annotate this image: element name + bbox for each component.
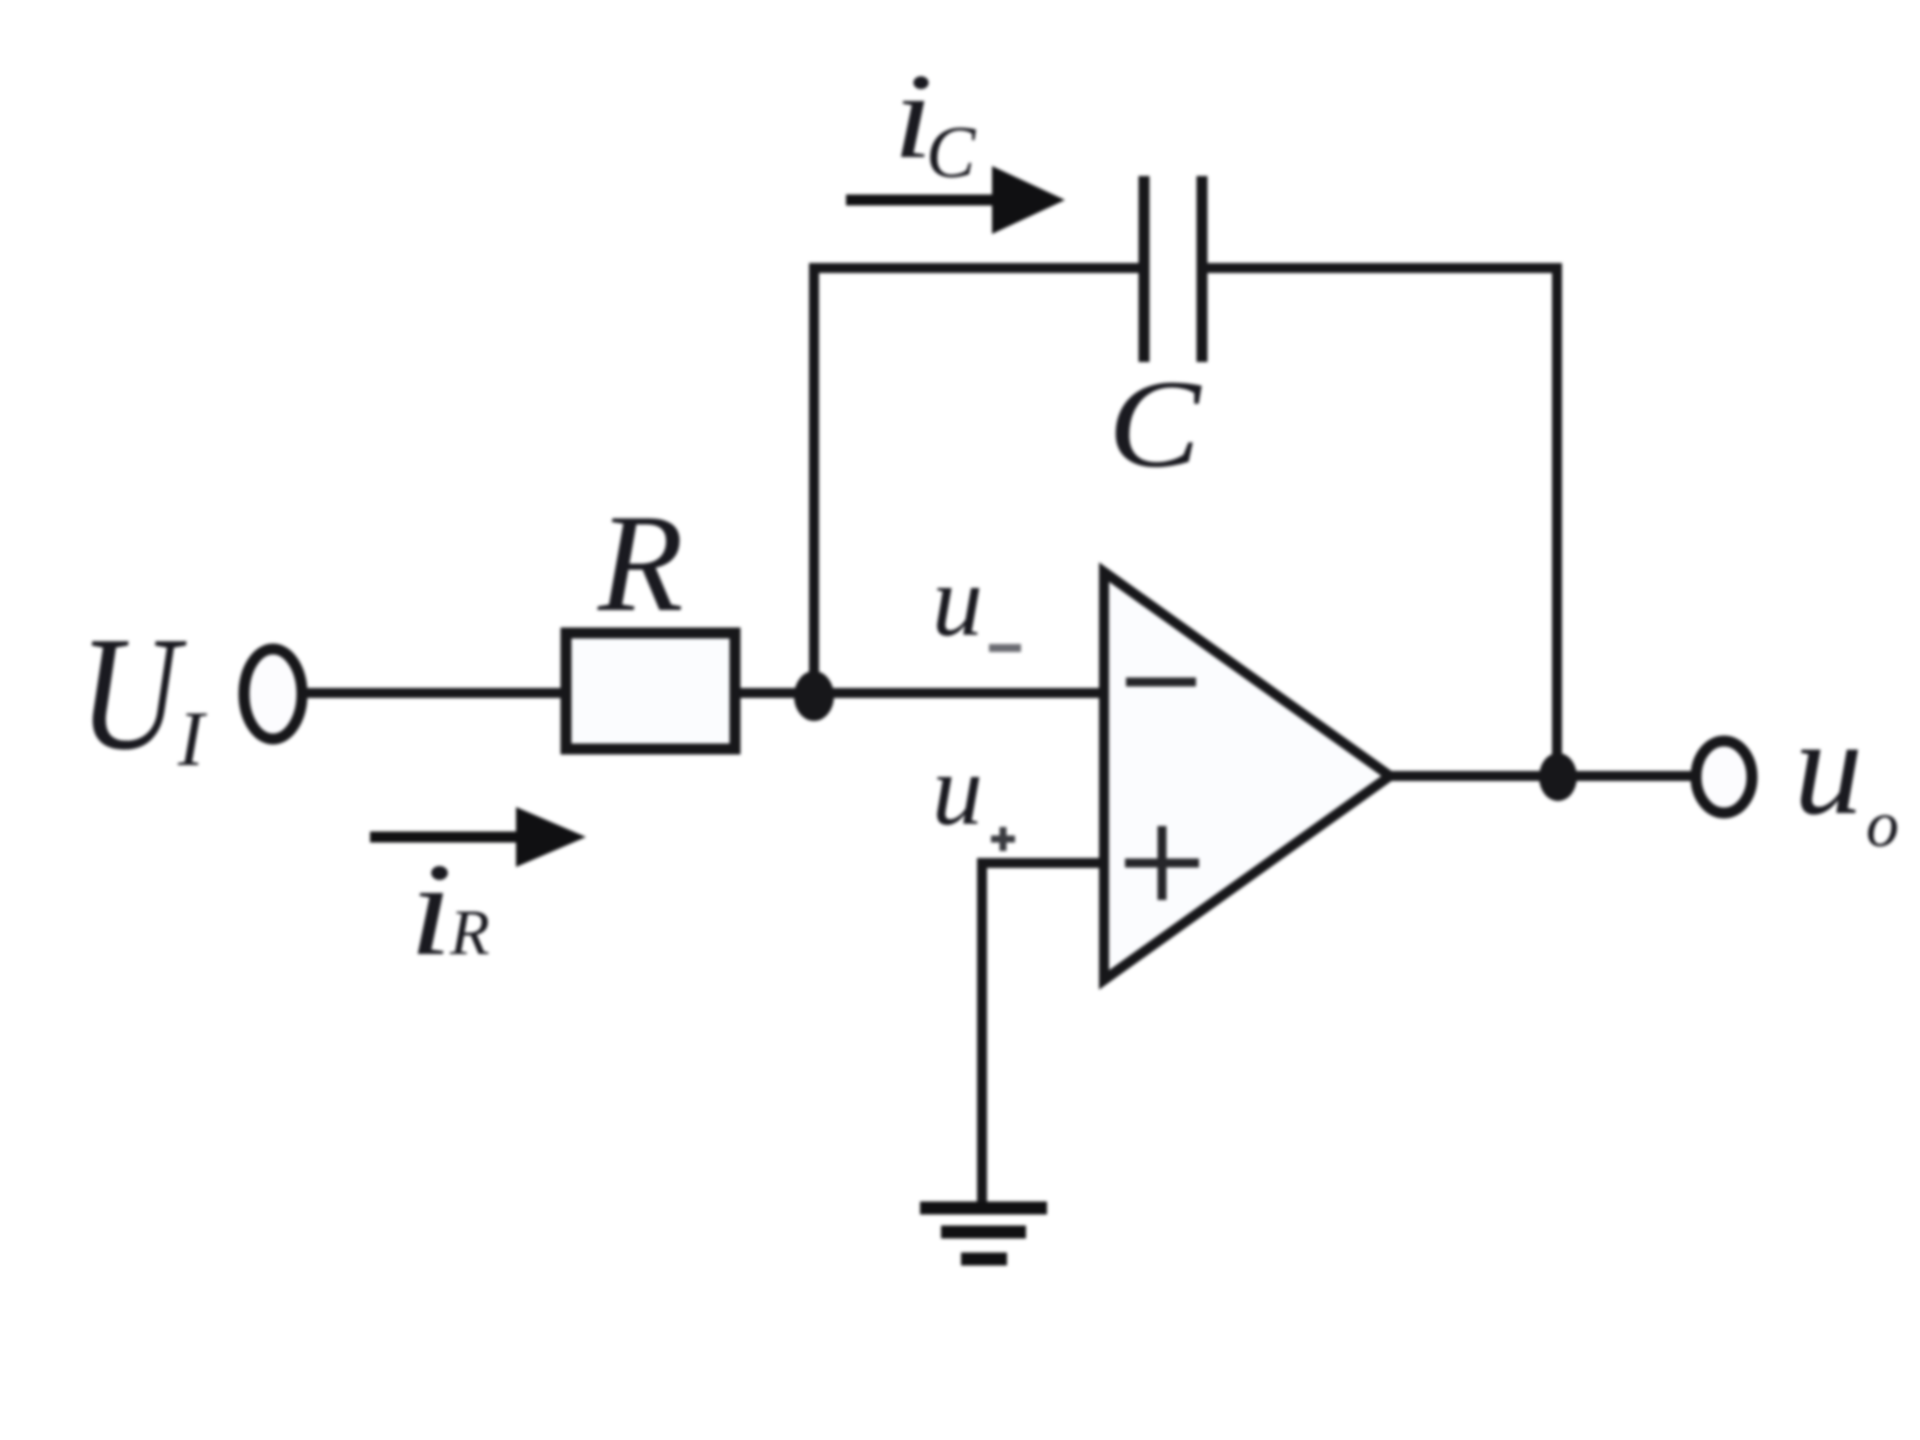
svg-text:C: C — [1108, 354, 1202, 494]
ground bar 2 — [941, 1226, 1026, 1239]
svg-text:o: o — [1866, 788, 1899, 861]
node A junction dot — [794, 671, 834, 721]
svg-text:U: U — [79, 603, 187, 784]
wire node up to feedback — [809, 263, 819, 696]
wire op-amp output — [1390, 771, 1691, 781]
wire non-inverting input horizontal — [982, 858, 1104, 868]
svg-text:u: u — [1794, 690, 1863, 843]
current arrow i_R — [370, 832, 523, 843]
svg-text:u: u — [932, 734, 983, 847]
wire input to resistor — [302, 688, 566, 698]
ground bar 1 — [920, 1202, 1047, 1215]
svg-text:R: R — [597, 486, 684, 641]
wire feedback top right segment — [1202, 263, 1562, 273]
svg-text:u: u — [932, 545, 983, 658]
input terminal U_I circle — [244, 649, 302, 739]
op-amp U1 triangle — [1104, 572, 1390, 980]
svg-text:C: C — [926, 112, 977, 194]
output terminal u_o circle — [1696, 741, 1752, 813]
wire non-inverting down to ground — [977, 858, 987, 1208]
output node junction dot — [1539, 753, 1577, 801]
svg-text:i: i — [409, 836, 453, 983]
ground bar 3 — [961, 1253, 1007, 1266]
op-amp plus sign — [1125, 859, 1199, 868]
capacitor C right plate — [1197, 176, 1208, 362]
svg-text:R: R — [449, 897, 490, 969]
capacitor C left plate — [1139, 176, 1150, 362]
current arrow i_C — [846, 195, 1000, 206]
wire resistor to op-amp inverting input — [735, 688, 1104, 698]
wire feedback right vertical — [1552, 263, 1562, 777]
wire feedback top left segment — [809, 263, 1144, 273]
svg-text:I: I — [177, 695, 208, 782]
resistor R body — [566, 633, 735, 749]
op-amp minus sign — [1126, 678, 1196, 687]
